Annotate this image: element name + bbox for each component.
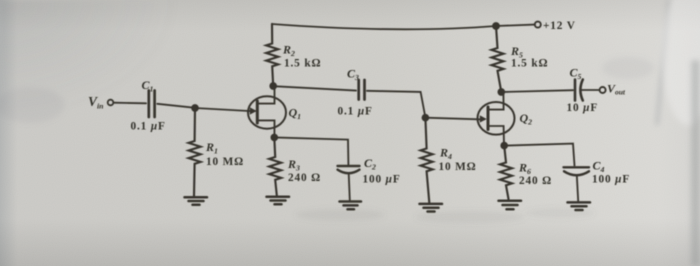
wire Q1 drain to C3 bbox=[273, 86, 356, 90]
svg-text:10 MΩ: 10 MΩ bbox=[206, 156, 244, 168]
svg-text:1.5 kΩ: 1.5 kΩ bbox=[511, 58, 548, 70]
node source Q1 bbox=[271, 135, 277, 141]
node source Q2 bbox=[501, 143, 507, 149]
node Vin input terminal bbox=[108, 100, 114, 106]
node drain Q1 bbox=[270, 83, 276, 89]
svg-text:100 μF: 100 μF bbox=[363, 174, 401, 186]
svg-text:0.1 μF: 0.1 μF bbox=[338, 106, 373, 118]
ground below R3 bbox=[267, 197, 290, 204]
node drain Q2 bbox=[498, 89, 504, 95]
wire Q2 source to C4 bbox=[504, 144, 574, 166]
wire C1 to gate node bbox=[157, 104, 195, 108]
wire C5 to Vout terminal bbox=[582, 89, 600, 91]
ground below C2 bbox=[340, 202, 362, 210]
svg-text:0.1 μF: 0.1 μF bbox=[131, 121, 166, 133]
wire junction to Q1 gate bbox=[195, 108, 249, 111]
wire C4 to ground bbox=[577, 175, 578, 201]
transistor Q1 bbox=[248, 86, 286, 137]
resistor R5 bbox=[492, 26, 504, 92]
capacitor C4 polarized bbox=[564, 167, 590, 175]
wire C3 to R4 node bbox=[367, 91, 425, 118]
svg-text:100 μF: 100 μF bbox=[592, 174, 630, 186]
capacitor C2 polarized bbox=[338, 166, 360, 173]
resistor R1 bbox=[189, 108, 201, 196]
node R4 / gate Q2 bbox=[423, 115, 429, 121]
svg-text:10 μF: 10 μF bbox=[567, 102, 599, 114]
wire top rail bbox=[272, 24, 496, 29]
resistor R2 bbox=[266, 24, 278, 86]
wire C2 to ground bbox=[349, 173, 350, 200]
node +12V terminal bbox=[535, 22, 541, 28]
wire Vin to C1 bbox=[114, 102, 146, 105]
ground below R4 bbox=[420, 204, 443, 212]
ground below R6 bbox=[499, 201, 522, 209]
ground below R1 bbox=[185, 197, 208, 204]
svg-text:10 MΩ: 10 MΩ bbox=[439, 161, 477, 173]
node rail junction bbox=[493, 23, 499, 29]
capacitor C5 polarized bbox=[575, 80, 583, 101]
ground below C4 bbox=[568, 202, 591, 210]
node gate Q1 junction bbox=[192, 105, 198, 111]
wire Q2 drain to C5 bbox=[501, 90, 573, 92]
svg-text:1.5 kΩ: 1.5 kΩ bbox=[284, 58, 321, 70]
node Vout terminal bbox=[600, 87, 606, 93]
svg-text:240 Ω: 240 Ω bbox=[519, 175, 552, 187]
wire rail to +12V terminal bbox=[496, 25, 535, 26]
resistor R6 bbox=[500, 146, 512, 199]
wire Q1 source to C2 bbox=[274, 137, 348, 164]
wire node to Q2 gate bbox=[425, 118, 478, 120]
transistor Q2 bbox=[478, 92, 515, 146]
capacitor C3 bbox=[359, 80, 365, 100]
svg-text:+12 V: +12 V bbox=[543, 20, 576, 32]
resistor R3 bbox=[269, 137, 281, 195]
svg-text:240 Ω: 240 Ω bbox=[288, 172, 321, 184]
capacitor C1 bbox=[149, 91, 155, 118]
resistor R4 bbox=[421, 118, 433, 203]
